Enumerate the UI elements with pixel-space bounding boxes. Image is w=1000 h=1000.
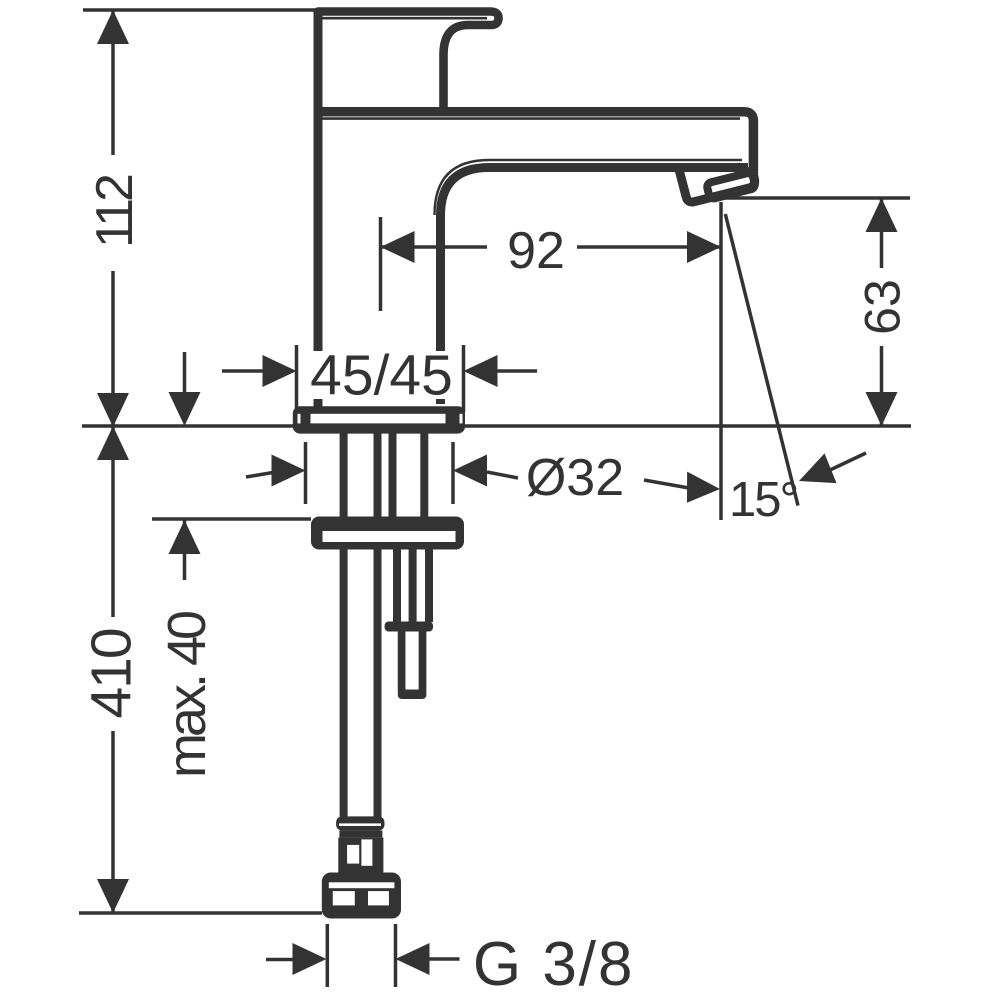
dim 32 extension lines: [306, 442, 454, 504]
arrow G38 right: [396, 943, 430, 975]
arrow 32 left: [272, 455, 306, 487]
cartridge shoulder: [385, 622, 433, 632]
dim 92 line: [381, 245, 722, 249]
arrow G38 left: [293, 943, 327, 975]
white text backgrounds: [88, 155, 905, 731]
shank tubes between plate and flange: [344, 433, 425, 517]
svg-text:92: 92: [507, 222, 565, 280]
dim 45/45 extension lines: [297, 345, 464, 412]
arrow 112 bottom down: [97, 393, 129, 427]
dim G38 extension lines: [327, 924, 395, 987]
arrow 45/45 left: [263, 355, 297, 387]
countertop reference line: [82, 424, 911, 428]
faucet body top and right edge: [314, 112, 754, 174]
arrowheads: [97, 10, 898, 975]
svg-text:63: 63: [855, 279, 911, 335]
15 degree leaders: [644, 453, 866, 488]
dimension texts: [80, 175, 911, 999]
supply hose walls: [344, 549, 378, 818]
arrow 92 left: [381, 231, 415, 263]
cartridge narrow tail: [402, 631, 423, 692]
extension line flange top: [152, 517, 311, 521]
dim 45/45 leaders: [222, 369, 537, 373]
connection nut: [322, 873, 401, 919]
svg-text:max. 40: max. 40: [157, 612, 217, 778]
spout underside and riser inner edge: [441, 168, 749, 405]
15 degree slant line: [725, 214, 798, 506]
arrow 32 right: [453, 455, 487, 487]
hose fitting neck: [339, 831, 382, 838]
dim 92 extension line left: [379, 217, 383, 311]
arrow 112 top up: [97, 10, 129, 44]
cartridge tail cap: [398, 690, 427, 700]
escutcheon base plate: [293, 406, 465, 433]
dim 63 extension line top: [721, 196, 910, 200]
svg-text:Ø32: Ø32: [526, 449, 624, 507]
dim 32 leaders: [246, 472, 518, 478]
hose fitting collar: [336, 816, 384, 830]
arrow 45/45 right: [464, 355, 498, 387]
faucet handle outline: [318, 12, 499, 111]
arrow 63 up: [866, 198, 898, 232]
svg-text:410: 410: [80, 629, 144, 718]
dim G38 leaders: [266, 957, 460, 961]
dim 410 shaft: [111, 426, 115, 913]
handle inner contour line: [320, 17, 487, 20]
arrow max40 down at counter: [169, 392, 201, 426]
extension line top left: [83, 8, 318, 12]
arrow 410 top up: [97, 426, 129, 460]
dim 63 shaft: [880, 198, 884, 426]
dim 112 shaft: [111, 10, 115, 427]
extension line nut bottom: [79, 911, 322, 915]
svg-text:15°: 15°: [729, 473, 797, 527]
spout outlet body: [679, 167, 755, 202]
faucet body left edge: [314, 12, 323, 407]
arrow 92 right: [687, 231, 721, 263]
body top inner contour line: [320, 117, 740, 120]
hose fitting crimp body: [338, 838, 383, 875]
dim max40 shafts: [183, 352, 187, 580]
arrow 15deg right: [793, 453, 837, 495]
arrow 15deg left: [685, 472, 721, 505]
arrow max40 up at flange: [169, 520, 201, 554]
cartridge tail tube: [397, 549, 429, 622]
spout aerator ring: [706, 172, 756, 199]
svg-text:112: 112: [86, 175, 144, 248]
arrow 63 down: [866, 392, 898, 426]
spout underside thin outer contour: [435, 160, 743, 215]
angle reference vertical line: [719, 202, 723, 520]
mounting flange below counter: [311, 517, 464, 550]
arrow 410 bottom down: [97, 879, 129, 913]
svg-text:45/45: 45/45: [310, 344, 453, 408]
svg-text:G 3/8: G 3/8: [473, 930, 635, 999]
